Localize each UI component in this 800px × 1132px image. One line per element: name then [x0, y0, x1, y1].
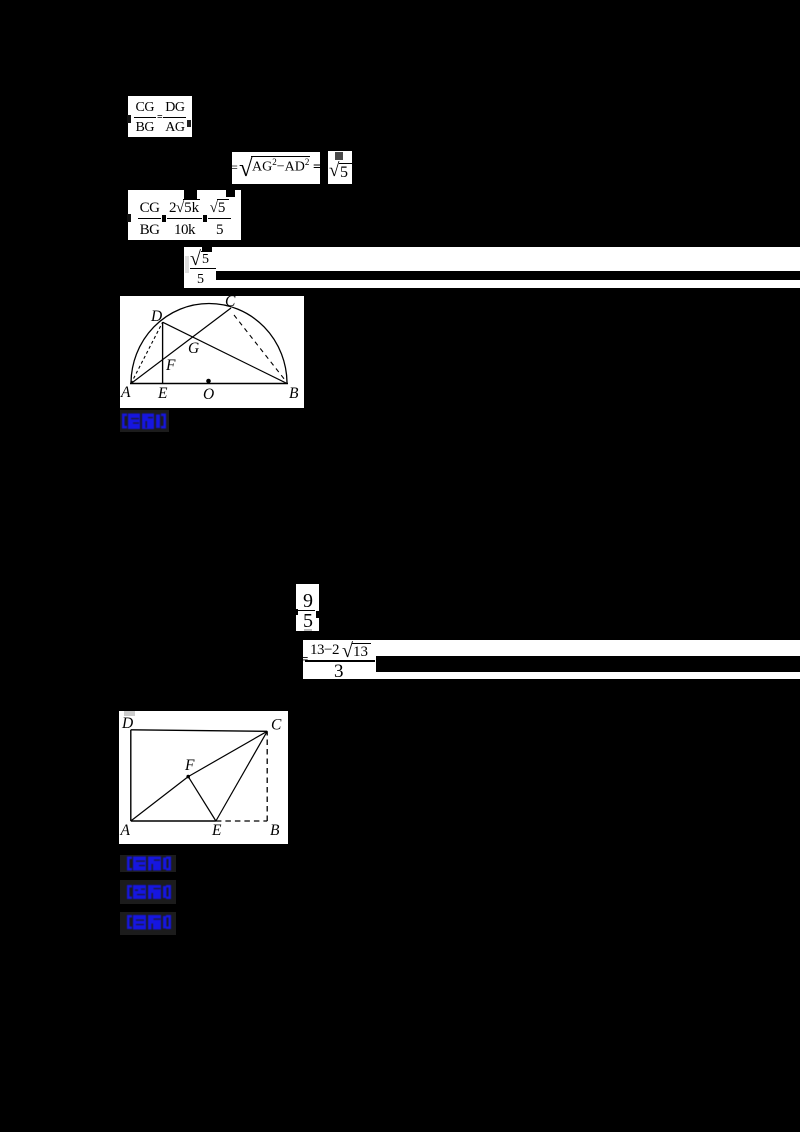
svg-text:B: B [289, 385, 299, 402]
svg-text:O: O [203, 386, 214, 403]
svg-text:E: E [211, 822, 222, 839]
svg-text:G: G [188, 340, 199, 357]
svg-text:F: F [165, 357, 176, 374]
svg-text:D: D [121, 715, 133, 732]
svg-text:E: E [157, 385, 168, 402]
svg-text:A: A [120, 384, 131, 401]
svg-text:D: D [150, 308, 162, 325]
svg-text:C: C [225, 296, 236, 310]
svg-text:F: F [184, 757, 195, 774]
svg-text:A: A [120, 822, 131, 839]
svg-text:C: C [271, 717, 282, 734]
svg-text:B: B [270, 822, 280, 839]
